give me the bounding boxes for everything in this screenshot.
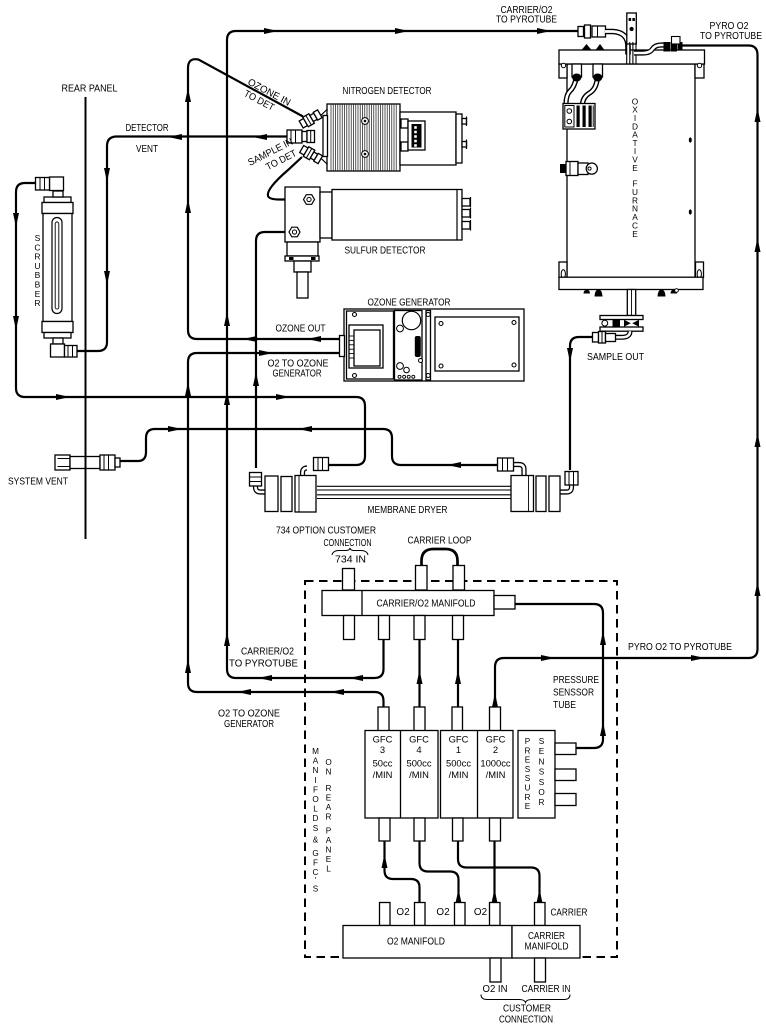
svg-text:E: E: [539, 747, 545, 756]
svg-text:E: E: [632, 229, 638, 239]
svg-text:L: L: [313, 805, 318, 814]
svg-text:O: O: [538, 788, 544, 797]
svg-text:F: F: [313, 859, 318, 868]
svg-text:NITROGEN DETECTOR: NITROGEN DETECTOR: [343, 86, 432, 97]
O2 manifold box: [343, 926, 512, 959]
wire: GFC1 riser to manifold: [455, 640, 461, 707]
svg-text:2: 2: [493, 744, 498, 755]
svg-text:50cc: 50cc: [373, 758, 393, 769]
svg-text:S: S: [539, 778, 545, 787]
weld marks on flange: [582, 44, 592, 50]
wire: O2 manifold to GFC3: [382, 841, 420, 903]
tube: sample out elbow: [615, 331, 630, 337]
GFC 1 and 2 box: [441, 731, 514, 819]
dashed enclosure: manifolds and GFCs on rear panel: [305, 581, 617, 957]
svg-text:I: I: [314, 776, 316, 785]
system vent fitting: [8, 455, 120, 488]
pressure senssor box: [518, 731, 576, 819]
svg-text:500cc: 500cc: [406, 758, 431, 769]
svg-text:/MIN: /MIN: [486, 769, 506, 780]
svg-text:CONNECTION: CONNECTION: [324, 538, 372, 549]
svg-text:OZONE GENERATOR: OZONE GENERATOR: [368, 298, 451, 309]
carrier/O2 inlet fitting at furnace top: [578, 25, 606, 38]
wire: ozone out -> ozone in to detector: [185, 59, 344, 342]
ozone in fitting (rotated): [298, 109, 322, 129]
svg-text:O2 IN: O2 IN: [483, 984, 508, 995]
svg-text:L: L: [326, 865, 331, 874]
sample out stem: [627, 290, 635, 316]
wire: carrier/O2 from manifold to pyrotube (left tall loop): [224, 28, 578, 681]
svg-text:734 IN: 734 IN: [335, 555, 366, 566]
svg-text:N: N: [326, 846, 332, 855]
svg-text:O2 TO OZONE: O2 TO OZONE: [218, 709, 280, 720]
svg-text:734 OPTION CUSTOMER: 734 OPTION CUSTOMER: [276, 526, 376, 537]
pyro out fitting (dark): [664, 37, 683, 52]
svg-text:R: R: [326, 813, 332, 822]
svg-text:S: S: [539, 768, 545, 777]
734 in stub: [343, 569, 355, 591]
svg-text:&: &: [313, 836, 319, 845]
O2 manifold top stubs: [380, 903, 391, 926]
svg-text:PYRO O2 TO PYROTUBE: PYRO O2 TO PYROTUBE: [628, 642, 732, 653]
GFC top stubs: [378, 707, 389, 731]
svg-text:4: 4: [416, 744, 421, 755]
svg-text:MEMBRANE DRYER: MEMBRANE DRYER: [368, 505, 448, 516]
svg-text:G: G: [312, 849, 318, 858]
tube: pyro out of furnace top: [634, 45, 670, 53]
wire: scrubber top out -> membrane dryer left top: [13, 183, 365, 465]
membrane dryer: [250, 458, 579, 517]
wire: membrane dryer right top -> system vent: [117, 426, 500, 468]
tube: carrier into pyrotube: [605, 32, 628, 55]
svg-text:TO PYROTUBE: TO PYROTUBE: [700, 31, 762, 42]
svg-text:E: E: [632, 163, 638, 173]
svg-text:O: O: [312, 795, 318, 804]
wire: system vent pigtail: [85, 440, 87, 478]
svg-text:SULFUR DETECTOR: SULFUR DETECTOR: [345, 246, 426, 257]
svg-text:O: O: [325, 758, 331, 767]
svg-text:N: N: [326, 768, 332, 777]
svg-text:CARRIER IN: CARRIER IN: [522, 984, 571, 995]
sample out manifold assembly: [600, 316, 643, 332]
svg-text:CARRIER: CARRIER: [528, 931, 565, 942]
wire: GFC2 -> pyro O2 to pyrotube (right tall riser): [492, 46, 761, 708]
svg-text:A: A: [313, 757, 319, 766]
svg-text:GFC: GFC: [486, 734, 506, 745]
svg-text:GENERATOR: GENERATOR: [224, 719, 274, 730]
svg-text:PRESSURE: PRESSURE: [553, 675, 599, 686]
wire: detector vent down to scrubber bottom: [75, 134, 289, 351]
svg-text:/MIN: /MIN: [409, 769, 429, 780]
svg-text:3: 3: [380, 744, 385, 755]
svg-text:VENT: VENT: [136, 144, 158, 155]
svg-text:O2 MANIFOLD: O2 MANIFOLD: [387, 937, 445, 948]
svg-text:GFC: GFC: [409, 734, 429, 745]
detector vent fitting on nitrogen detector: [287, 130, 315, 143]
svg-text:MANIFOLD: MANIFOLD: [525, 942, 569, 953]
furnace bottom bumps: [584, 289, 679, 297]
carrier manifold box: [512, 926, 580, 959]
sample out fitting: [593, 332, 616, 344]
svg-text:1000cc: 1000cc: [480, 758, 511, 769]
svg-text:M: M: [312, 747, 319, 756]
svg-text:E: E: [326, 794, 332, 803]
svg-text:500cc: 500cc: [446, 758, 471, 769]
svg-text:R: R: [34, 298, 40, 308]
svg-text:GFC: GFC: [449, 734, 469, 745]
label: ozone in to det (rotated): [240, 77, 292, 119]
svg-text:A: A: [326, 803, 332, 812]
wire: sample in to sulfur detector upper port: [268, 157, 305, 200]
svg-text:P: P: [525, 737, 531, 746]
svg-text:R: R: [539, 798, 545, 807]
manifold bottom stubs: [344, 616, 355, 640]
svg-text:CARRIER/O2 MANIFOLD: CARRIER/O2 MANIFOLD: [377, 599, 476, 610]
svg-text:GENERATOR: GENERATOR: [273, 369, 322, 380]
svg-text:O2: O2: [396, 907, 409, 918]
svg-text:CARRIER: CARRIER: [551, 908, 588, 919]
svg-text:N: N: [539, 757, 545, 766]
oxidative furnace: [559, 50, 705, 290]
customer connection stubs: [490, 958, 501, 982]
wire: carrier manifold to GFC1: [458, 841, 543, 903]
svg-text:1: 1: [456, 744, 461, 755]
brace over 734 IN: [332, 548, 368, 555]
svg-text:S: S: [525, 765, 531, 774]
svg-text:CARRIER/O2: CARRIER/O2: [241, 647, 294, 658]
svg-text:TO PYROTUBE: TO PYROTUBE: [229, 659, 298, 670]
svg-text:SAMPLE OUT: SAMPLE OUT: [587, 352, 644, 363]
svg-text:R: R: [525, 746, 531, 755]
carrier loop tube: [422, 549, 458, 568]
GFC bottom stubs: [379, 818, 390, 841]
sulfur detector: [285, 187, 471, 298]
svg-text:E: E: [525, 802, 531, 811]
svg-text:S: S: [313, 824, 319, 833]
ozone generator: [340, 298, 525, 382]
wire: O2 to ozone generator (from GFC3): [185, 350, 384, 707]
underbrace: [481, 995, 570, 1003]
svg-text:U: U: [525, 784, 531, 793]
svg-text:N: N: [313, 766, 319, 775]
wire: membrane dryer left center -> sulfur detector lower port: [253, 232, 296, 468]
svg-text:REAR PANEL: REAR PANEL: [62, 84, 118, 95]
svg-text:R: R: [525, 793, 531, 802]
pyrotube through flange: [627, 42, 636, 64]
wire: GFC4 riser to manifold: [417, 640, 423, 707]
svg-text:SYSTEM VENT: SYSTEM VENT: [8, 477, 68, 488]
label: manifolds and gfcs on rear panel (vertical): [312, 747, 332, 894]
carrier loop stubs: [416, 566, 428, 591]
svg-text:P: P: [326, 827, 332, 836]
svg-text:S: S: [539, 737, 545, 746]
scrubber: [34, 177, 77, 357]
svg-text:OZONE OUT: OZONE OUT: [276, 324, 326, 335]
svg-text:/MIN: /MIN: [373, 769, 393, 780]
svg-text:SENSSOR: SENSSOR: [553, 688, 594, 699]
svg-text:S: S: [313, 885, 319, 894]
carrier/O2 manifold: [322, 591, 515, 616]
svg-text:D: D: [313, 814, 319, 823]
label: sample in to det (rotated): [246, 137, 300, 180]
svg-text:TUBE: TUBE: [553, 700, 576, 711]
wire: O2 manifold to GFC4: [420, 841, 462, 903]
svg-text:O2: O2: [474, 907, 487, 918]
svg-text:O2: O2: [436, 907, 449, 918]
rear panel line: [62, 84, 118, 540]
svg-text:F: F: [313, 785, 318, 794]
svg-text:GFC: GFC: [373, 734, 393, 745]
svg-text:DETECTOR: DETECTOR: [126, 123, 169, 134]
svg-text:R: R: [326, 784, 332, 793]
wire: sample out from furnace -> membrane dryer right center: [567, 337, 596, 470]
wire: pressure senssor tube from manifold right port: [515, 604, 606, 748]
svg-text:CUSTOMER: CUSTOMER: [503, 1004, 551, 1015]
svg-text:TO PYROTUBE: TO PYROTUBE: [496, 14, 557, 25]
svg-text:E: E: [525, 756, 531, 765]
GFC 3 and 4 box: [365, 731, 438, 819]
svg-text:A: A: [326, 836, 332, 845]
pyrotube bracket: [627, 13, 637, 44]
svg-text:E: E: [326, 855, 332, 864]
svg-text:CONNECTION: CONNECTION: [499, 1015, 553, 1026]
wire: O2 manifold to GFC2: [492, 841, 498, 903]
svg-text:S: S: [525, 774, 531, 783]
svg-text:CARRIER LOOP: CARRIER LOOP: [408, 536, 472, 547]
nitrogen detector: [316, 86, 467, 171]
sample in fitting (rotated): [299, 144, 323, 164]
svg-text:/MIN: /MIN: [449, 769, 469, 780]
